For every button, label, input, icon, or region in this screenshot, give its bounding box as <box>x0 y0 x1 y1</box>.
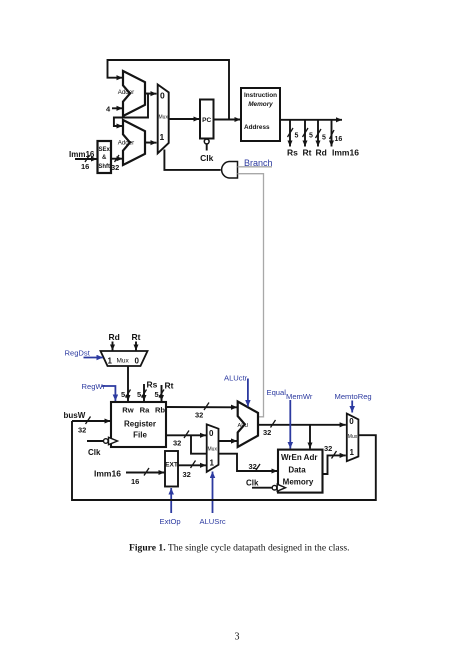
svg-text:Clk: Clk <box>246 479 259 488</box>
svg-text:1: 1 <box>160 132 165 142</box>
svg-text:16: 16 <box>81 162 89 171</box>
svg-text:Rb: Rb <box>155 406 165 415</box>
wire: Rt into mux W1 <box>135 342 137 351</box>
wire: busW into regfile <box>72 420 111 422</box>
wire: Rt into Rb <box>161 385 163 401</box>
wire: busB to mux M2 input 0 <box>166 434 206 436</box>
svg-text:Mux: Mux <box>208 447 218 453</box>
svg-text:Imm16: Imm16 <box>69 150 95 159</box>
svg-text:ALUSrc: ALUSrc <box>200 517 226 526</box>
wire: Rt field drop <box>304 120 306 147</box>
svg-text:Branch: Branch <box>244 158 273 168</box>
wire: ALU result bus to mux M3 input 0 <box>258 424 346 426</box>
svg-text:5: 5 <box>155 390 159 399</box>
svg-text:Mux: Mux <box>117 358 130 365</box>
wire: W1 output to Rw <box>127 366 129 401</box>
svg-text:Imm16: Imm16 <box>332 148 359 158</box>
svg-text:16: 16 <box>131 477 139 486</box>
svg-text:Memory: Memory <box>283 478 314 487</box>
wire: EXT output to mux M2 input 1 <box>178 464 206 466</box>
wire: Imm16 into SEx <box>75 158 97 160</box>
svg-text:EXT: EXT <box>165 462 178 469</box>
adder A1 (PC+4 adder) <box>123 71 145 116</box>
svg-text:SEx: SEx <box>99 147 111 153</box>
svg-text:ALU: ALU <box>238 423 249 429</box>
svg-text:Rw: Rw <box>122 406 133 415</box>
svg-text:32: 32 <box>195 411 203 420</box>
svg-text:Rt: Rt <box>303 148 312 158</box>
svg-text:MemWr: MemWr <box>286 392 313 401</box>
wire: SEx output to A2 input 2 <box>111 158 123 160</box>
svg-text:5: 5 <box>309 133 313 140</box>
svg-text:Adder: Adder <box>118 139 135 146</box>
wire: Rd field drop <box>317 120 319 147</box>
wire: MemtoReg (blue) <box>351 401 353 413</box>
svg-text:32: 32 <box>249 462 257 471</box>
wire: ExtOp (blue) <box>170 488 172 513</box>
svg-text:0: 0 <box>209 429 214 438</box>
wire: busA to ALU <box>166 406 237 408</box>
wire: Equal from ALU up to G1 (gray) <box>238 174 264 417</box>
wire: ALUSrc (blue) <box>212 472 214 514</box>
wire: DM output to mux M3 input 1 <box>323 455 346 474</box>
svg-text:Clk: Clk <box>200 153 214 163</box>
svg-text:Rt: Rt <box>165 381 174 391</box>
svg-text:Instruction: Instruction <box>244 92 277 99</box>
wire: MemWr (blue) <box>289 400 291 449</box>
svg-text:5: 5 <box>295 133 299 140</box>
svg-text:Shft: Shft <box>98 164 110 170</box>
svg-text:Address: Address <box>244 124 270 131</box>
wire: G1 output to mux M1 select <box>164 150 220 170</box>
svg-text:Rs: Rs <box>147 380 158 390</box>
wire: PC+4 tap down to branch adder input 1 <box>114 94 148 126</box>
svg-text:5: 5 <box>322 135 326 142</box>
wire: Rd into mux W1 <box>112 342 114 351</box>
svg-text:Rt: Rt <box>132 332 141 342</box>
wire: A2 output to PC mux input 1 <box>145 142 157 144</box>
svg-text:Rd: Rd <box>109 332 120 342</box>
svg-text:Rd: Rd <box>316 148 327 158</box>
wire: mux M1 output to PC <box>169 118 200 120</box>
register PC <box>200 100 214 139</box>
svg-text:32: 32 <box>263 428 271 437</box>
wire: busB branch to data memory data-in <box>191 435 278 471</box>
wire: Imm16 into EXT <box>126 472 165 474</box>
svg-text:ALUctr: ALUctr <box>224 374 248 383</box>
wire: ALUctr (blue) <box>247 379 249 407</box>
tick 16 <box>85 155 90 162</box>
svg-text:0: 0 <box>135 357 140 366</box>
svg-text:&: & <box>102 155 107 161</box>
wire: Rs into Ra <box>143 384 145 401</box>
mux W1 (RegDst mux) <box>101 351 148 366</box>
Data Memory <box>278 450 323 493</box>
Instruction Memory <box>241 88 280 141</box>
svg-text:Ra: Ra <box>140 406 150 415</box>
svg-text:0: 0 <box>160 91 165 101</box>
wire: Rs field drop <box>289 120 291 147</box>
alu U3 <box>238 402 258 448</box>
svg-text:Clk: Clk <box>88 448 101 457</box>
wire: instruction bus out of IM <box>280 119 342 121</box>
and-gate G1 (branch AND equal) <box>222 162 238 179</box>
svg-text:0: 0 <box>349 417 354 426</box>
SEx & Shft box <box>98 141 112 173</box>
EXT box <box>165 451 178 487</box>
wire: PC feedback loop (top) <box>108 60 230 119</box>
svg-text:MemtoReg: MemtoReg <box>335 392 372 401</box>
regfile clock input <box>87 440 104 442</box>
wire: RegDst select (blue) <box>84 357 104 359</box>
svg-text:32: 32 <box>183 470 191 479</box>
svg-text:32: 32 <box>173 439 181 448</box>
adder A2 (branch target adder) <box>123 120 145 165</box>
PC clock input <box>204 139 209 144</box>
svg-text:Rs: Rs <box>287 148 298 158</box>
wire: RegWr (blue) <box>102 386 116 401</box>
svg-text:Figure 1. The single cycle da: Figure 1. The single cycle datapath desi… <box>129 543 350 554</box>
wire: PC output to Instruction Memory address <box>214 119 241 121</box>
wire: mux M3 output, busW return loop <box>72 421 376 500</box>
svg-text:Imm16: Imm16 <box>94 469 121 479</box>
tick 32 <box>115 155 120 162</box>
wire: Imm16 field drop <box>331 120 333 147</box>
mux M3 (MemtoReg mux) <box>347 414 359 462</box>
wire: Branch input stub (gray) <box>238 166 273 168</box>
svg-text:PC: PC <box>202 117 211 124</box>
mux M2 (ALUSrc mux) <box>207 424 219 472</box>
svg-text:16: 16 <box>335 136 343 143</box>
svg-text:1: 1 <box>210 459 215 468</box>
svg-text:ExtOp: ExtOp <box>160 517 181 526</box>
wire: M2 output to ALU input 2 <box>219 440 238 442</box>
svg-text:5: 5 <box>137 390 141 399</box>
wire: 4 into A1 <box>112 107 123 109</box>
svg-text:Register: Register <box>124 420 156 429</box>
Register File <box>111 402 166 447</box>
svg-text:Memory: Memory <box>248 101 273 108</box>
wire: ALU result drop to DM address <box>309 425 311 449</box>
svg-text:4: 4 <box>106 105 111 114</box>
svg-text:32: 32 <box>111 163 119 172</box>
svg-text:Mux: Mux <box>348 434 358 440</box>
svg-text:5: 5 <box>121 390 125 399</box>
svg-text:1: 1 <box>350 448 355 457</box>
svg-text:1: 1 <box>108 357 113 366</box>
svg-text:32: 32 <box>78 426 86 435</box>
svg-text:WrEn Adr: WrEn Adr <box>281 453 317 462</box>
svg-text:File: File <box>133 431 147 440</box>
svg-text:busW: busW <box>64 411 86 420</box>
svg-text:Equal: Equal <box>267 388 287 397</box>
svg-text:Mux: Mux <box>159 115 169 121</box>
svg-text:Data: Data <box>288 466 306 475</box>
mux M1 (PC source mux) <box>158 85 169 154</box>
svg-text:Adder: Adder <box>118 89 135 96</box>
svg-text:3: 3 <box>235 632 240 643</box>
svg-text:32: 32 <box>324 444 332 453</box>
wire: A1 output to PC mux input 0 (junction at x=148) <box>145 93 157 95</box>
svg-text:RegDst: RegDst <box>65 349 91 358</box>
